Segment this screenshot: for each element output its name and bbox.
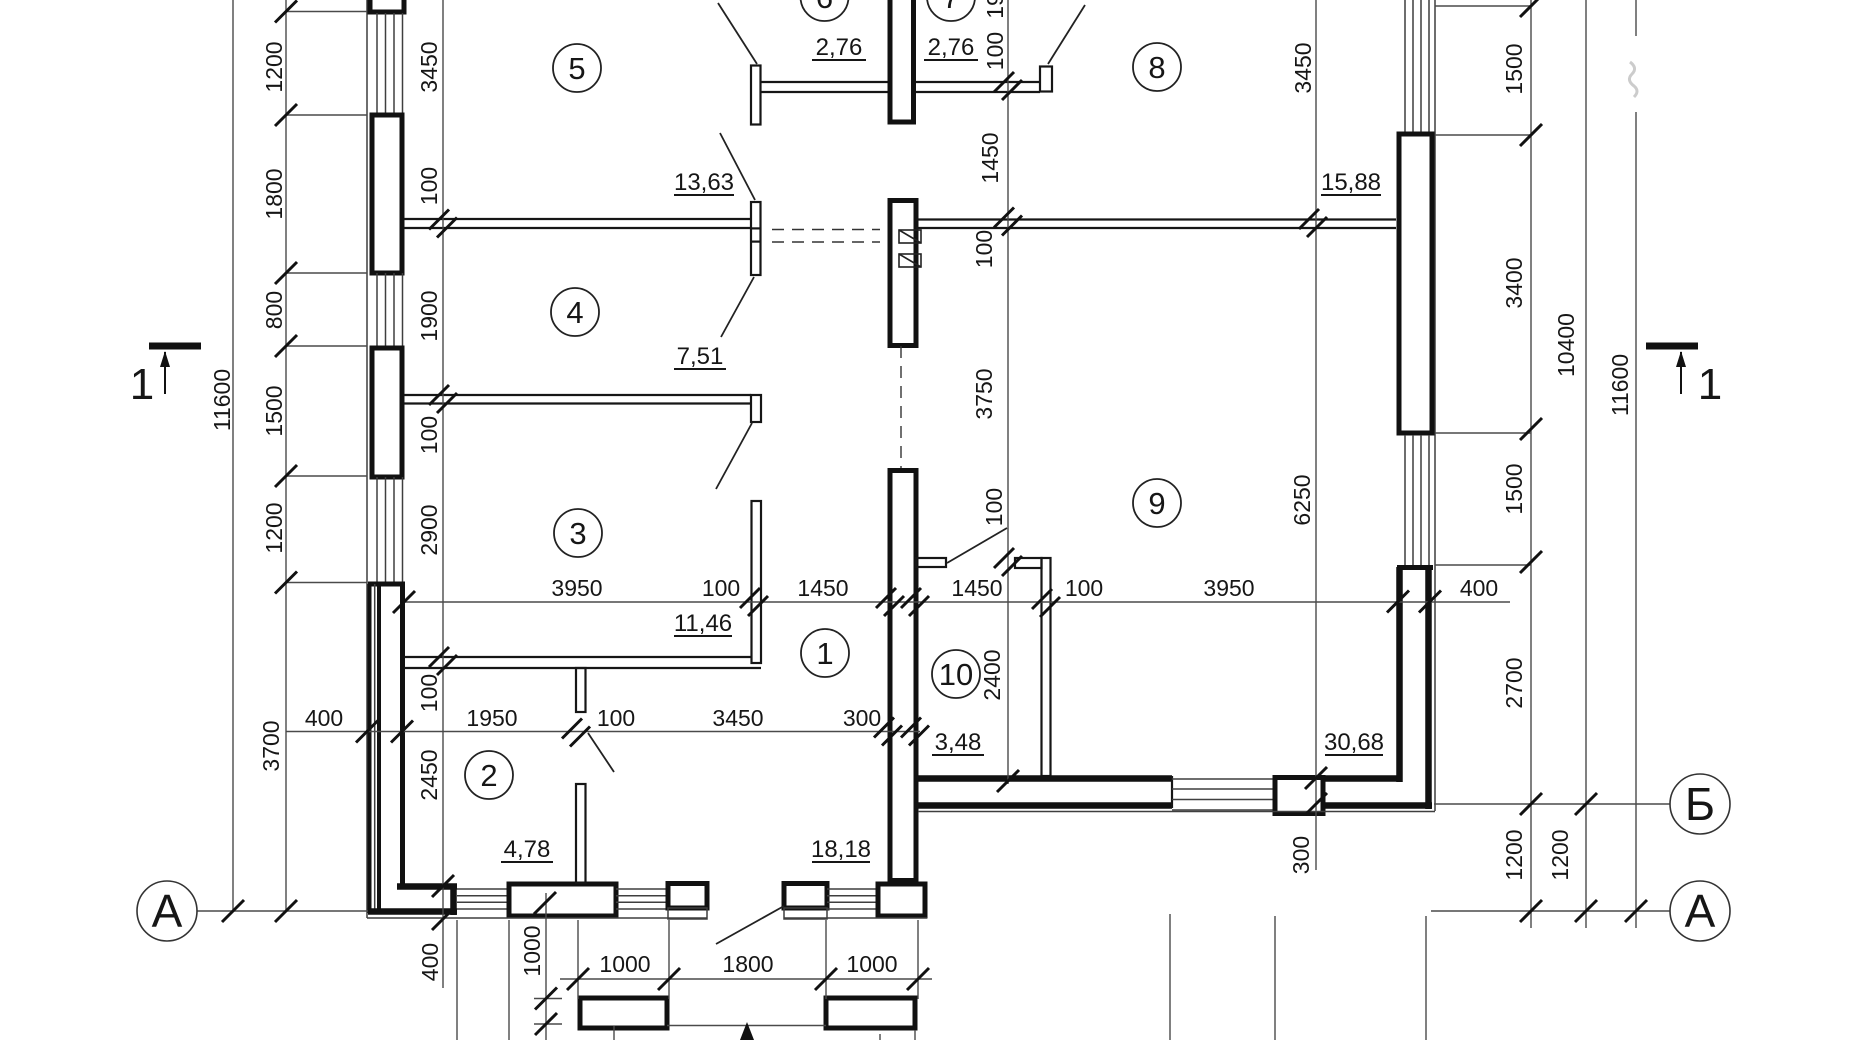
dashed lintel line a	[772, 229, 880, 231]
svg-text:2,76: 2,76	[928, 34, 975, 61]
dim text 1450 a	[797, 575, 848, 601]
svg-text:3,48: 3,48	[935, 729, 982, 756]
svg-text:13,63: 13,63	[674, 169, 734, 196]
partition rooms 8/9	[916, 220, 1396, 229]
room circle 7 (cut)	[927, 0, 975, 21]
svg-text:400: 400	[417, 943, 443, 981]
svg-text:1: 1	[816, 636, 833, 671]
entrance pier right	[784, 884, 827, 920]
bottom wall pier	[509, 884, 616, 916]
hall wall lower section	[890, 471, 916, 881]
dim ext right y565	[1435, 564, 1531, 566]
ticks porch 1000 dim	[534, 892, 557, 1035]
dim text 3750 v	[971, 368, 997, 419]
svg-text:1200: 1200	[261, 502, 287, 553]
dim ext line y115	[286, 114, 367, 116]
dim text 100 v1	[416, 167, 442, 205]
svg-text:10400: 10400	[1553, 313, 1579, 377]
window W3 left (1200)	[377, 477, 403, 582]
dim text 6250 v	[1289, 474, 1315, 525]
wall end L-cap corridor	[1040, 67, 1052, 92]
ticks left room chain	[429, 210, 457, 931]
room circle 2	[465, 751, 513, 799]
axis circle A right	[1670, 881, 1730, 941]
ticks 10400 line	[1575, 793, 1597, 922]
stub wall room 10	[916, 558, 946, 567]
dim line left chain	[285, 0, 287, 911]
partition room2/hall upper	[576, 668, 586, 712]
door leaf room 3	[716, 423, 752, 489]
dim text 100 a	[702, 575, 740, 601]
room10 bottom wall inner leaf	[914, 775, 1400, 782]
area label room 10	[932, 729, 984, 756]
window W6 bottom	[827, 889, 878, 909]
dim text 400 right	[1460, 575, 1498, 601]
svg-text:3450: 3450	[1290, 42, 1316, 93]
svg-text:1: 1	[1698, 360, 1722, 409]
dim text 100 v3	[416, 674, 442, 712]
dim text 100 v4	[982, 32, 1008, 70]
dim text 3450 c	[712, 705, 763, 731]
dashed lintel line b	[772, 241, 880, 243]
svg-text:3400: 3400	[1501, 257, 1527, 308]
dim chain horizontal y731	[286, 731, 920, 733]
dim text 3700 v	[258, 720, 284, 771]
svg-text:1500: 1500	[261, 385, 287, 436]
svg-text:1200: 1200	[261, 41, 287, 92]
dim line 10400 right	[1585, 0, 1587, 928]
svg-text:19: 19	[982, 0, 1008, 19]
ticks right chain	[1520, 0, 1542, 922]
dim line right room chain	[1315, 0, 1317, 870]
dim text 1200 v1	[261, 41, 287, 92]
axis A row line right	[1431, 910, 1670, 912]
dim text 1950 cut	[982, 0, 1008, 19]
svg-text:100: 100	[981, 488, 1007, 526]
dim text 1500 v1	[1501, 43, 1527, 94]
window W4 bottom (1000)	[457, 889, 509, 909]
svg-text:11,46: 11,46	[674, 610, 732, 637]
dim text 100 v5	[971, 230, 997, 268]
dim text 300 v	[1288, 836, 1314, 874]
room circle 4	[551, 288, 599, 336]
dim text 1900 v	[416, 290, 442, 341]
svg-text:2,76: 2,76	[816, 34, 863, 61]
svg-text:2450: 2450	[416, 749, 442, 800]
dim text 3450 v2	[1290, 42, 1316, 93]
partition rooms 10/9	[1042, 558, 1051, 776]
porch step edge line	[667, 1025, 826, 1027]
dim text 3950 right	[1203, 575, 1254, 601]
svg-text:3: 3	[569, 516, 586, 551]
svg-text:100: 100	[416, 416, 442, 454]
bottom wall outer leaf at corner	[368, 908, 457, 915]
leader room 10 door	[947, 528, 1007, 563]
area label room 3	[674, 610, 732, 637]
axis circle B right	[1670, 774, 1730, 834]
bottom pier right section	[1275, 778, 1323, 814]
dim chain bottom porch	[560, 978, 932, 980]
dim ext line y273	[286, 272, 367, 274]
room circle 10	[932, 650, 980, 698]
window W1 left (1200)	[377, 13, 403, 115]
svg-text:1950: 1950	[466, 705, 517, 731]
svg-text:8: 8	[1148, 50, 1165, 85]
dim text 1000 v	[519, 925, 545, 976]
dim ext line y580	[286, 582, 367, 584]
svg-text:4: 4	[566, 295, 583, 330]
dim text 100 c	[597, 705, 635, 731]
dim text 800 v	[261, 291, 287, 329]
svg-text:800: 800	[261, 291, 287, 329]
entrance door leaf	[716, 906, 784, 944]
room10 bottom wall outer leaf	[914, 802, 1432, 809]
dim chain horizontal y602	[404, 601, 1510, 603]
opening dashed centerline	[900, 346, 902, 468]
dim text 1500 v2	[1501, 463, 1527, 514]
dim text 2700 v	[1501, 657, 1527, 708]
bottom wall outer contour thin line	[367, 917, 927, 919]
window W9 right (1500)	[1405, 435, 1429, 565]
svg-text:3450: 3450	[712, 705, 763, 731]
svg-text:3700: 3700	[258, 720, 284, 771]
ticks chain y731	[356, 718, 929, 747]
svg-text:100: 100	[982, 32, 1008, 70]
dim ext line y346	[286, 345, 367, 347]
watermark blob	[1629, 62, 1637, 97]
svg-text:1450: 1450	[797, 575, 848, 601]
door leaf room 7	[1048, 5, 1085, 64]
dim ext right y135	[1435, 134, 1531, 136]
axis circle A left	[137, 881, 197, 941]
vent duct 1	[899, 230, 921, 243]
left wall pier P3 (1500)	[372, 348, 402, 477]
ticks right room chain	[1299, 209, 1327, 815]
dim line 11600 right	[1635, 0, 1637, 928]
room circle 3	[554, 509, 602, 557]
svg-text:100: 100	[597, 705, 635, 731]
area label room 1	[811, 836, 871, 863]
dim line left room chain	[442, 0, 444, 988]
left exterior wall outer face line	[366, 0, 368, 918]
dim text 100 v2	[416, 416, 442, 454]
partition rooms 5/4	[404, 219, 751, 228]
dim line 11600 left	[232, 0, 234, 911]
right wall sill cap	[1397, 565, 1433, 570]
dim line porch 1000	[534, 893, 562, 1040]
bottom wall window cap	[450, 884, 457, 916]
window W5 bottom	[616, 889, 668, 909]
svg-text:1500: 1500	[1501, 463, 1527, 514]
svg-text:9: 9	[1148, 486, 1165, 521]
svg-text:1500: 1500	[1501, 43, 1527, 94]
right wall inner leaf	[1396, 567, 1403, 782]
area label room 8	[1321, 169, 1381, 196]
entrance pier left	[668, 884, 707, 920]
dim text 1200 v3	[1501, 829, 1527, 880]
svg-text:3450: 3450	[416, 41, 442, 92]
svg-text:1: 1	[130, 360, 154, 409]
svg-text:300: 300	[1288, 836, 1314, 874]
room circle 6 (cut)	[801, 0, 849, 21]
window W7 bottom-right	[1172, 779, 1275, 810]
dim ext porch lines	[578, 920, 918, 999]
ticks porch chain	[567, 968, 929, 990]
right wall pier (3400)	[1399, 134, 1432, 433]
dim ext line x1275	[1274, 916, 1276, 1040]
dim text 2900 v	[416, 504, 442, 555]
window W8 right (1500)	[1405, 0, 1429, 132]
svg-text:2900: 2900	[416, 504, 442, 555]
dim text 400 v	[417, 943, 443, 981]
axis A row line left	[197, 910, 368, 912]
dim text 100 v6	[981, 488, 1007, 526]
svg-text:1800: 1800	[261, 168, 287, 219]
wall end cap at 4/3 partition	[751, 395, 761, 422]
svg-text:10: 10	[939, 657, 973, 692]
dim text 1450 b	[951, 575, 1002, 601]
svg-text:100: 100	[416, 674, 442, 712]
partition room2/hall lower	[576, 784, 586, 883]
svg-text:1200: 1200	[1547, 829, 1573, 880]
left wall pier P1 (top, cut)	[370, 0, 404, 12]
left wall pier P2 (1800)	[372, 115, 402, 273]
svg-text:7,51: 7,51	[677, 343, 724, 370]
door leaf room 5	[720, 133, 755, 200]
dim ext line x457	[456, 920, 458, 1040]
right exterior wall outer contour	[918, 0, 1435, 812]
dim line right chain	[1530, 0, 1532, 928]
svg-text:1000: 1000	[519, 925, 545, 976]
dim text 1000 r	[846, 951, 897, 977]
window W2 left (800)	[377, 273, 403, 346]
area label room 5/4 corridor	[674, 169, 734, 196]
room circle 9	[1133, 479, 1181, 527]
dim text 2400 v	[979, 649, 1005, 700]
dim text 3950 left	[551, 575, 602, 601]
svg-text:1200: 1200	[1501, 829, 1527, 880]
door jamb room 10/9	[1015, 558, 1042, 568]
svg-text:1000: 1000	[846, 951, 897, 977]
svg-text:100: 100	[416, 167, 442, 205]
svg-text:1450: 1450	[977, 132, 1003, 183]
svg-text:1000: 1000	[599, 951, 650, 977]
svg-text:3950: 3950	[1203, 575, 1254, 601]
ticks center vertical chain	[994, 72, 1022, 792]
room circle 5	[553, 44, 601, 92]
dim text 1800	[722, 951, 773, 977]
dim text 10400	[1553, 313, 1579, 377]
door leaf room 4	[721, 277, 754, 337]
ticks chain y602	[393, 588, 1441, 617]
svg-text:400: 400	[1460, 575, 1498, 601]
left lower wall transition cap	[368, 582, 405, 587]
left lower wall outer leaf	[370, 584, 380, 913]
bottom wall inner leaf at corner	[397, 883, 457, 890]
partition rooms 4/3	[404, 395, 751, 404]
dim text 1800 v	[261, 168, 287, 219]
area label room 7	[924, 34, 978, 61]
dim text 3450 v1	[416, 41, 442, 92]
room circle 1	[801, 629, 849, 677]
svg-text:А: А	[152, 885, 183, 937]
dim text 3400 v	[1501, 257, 1527, 308]
svg-text:5: 5	[568, 51, 585, 86]
dim ext line x1170	[1169, 914, 1171, 1040]
svg-text:11600: 11600	[1607, 354, 1633, 416]
svg-text:4,78: 4,78	[504, 836, 551, 863]
section mark 1 left	[130, 343, 201, 410]
dim text 11600 left	[209, 369, 235, 431]
dim ext line y15	[286, 11, 367, 13]
svg-text:100: 100	[971, 230, 997, 268]
svg-text:2700: 2700	[1501, 657, 1527, 708]
room circle 8	[1133, 43, 1181, 91]
svg-text:15,88: 15,88	[1321, 169, 1381, 196]
svg-text:18,18: 18,18	[811, 836, 871, 863]
svg-text:100: 100	[702, 575, 740, 601]
vent duct 2	[899, 254, 921, 267]
dim text 1200 v4	[1547, 829, 1573, 880]
porch stub line x614	[613, 1026, 615, 1040]
dim ext line x509	[508, 920, 510, 1040]
svg-text:А: А	[1685, 885, 1716, 937]
svg-text:1800: 1800	[722, 951, 773, 977]
right wall outer leaf	[1425, 567, 1432, 809]
svg-text:6: 6	[816, 0, 833, 15]
area label room 9	[1324, 729, 1384, 756]
left lower wall inner leaf	[400, 584, 405, 889]
dim ext line y476	[286, 475, 367, 477]
room10 bottom wall end cap	[1171, 776, 1173, 808]
dim text 1000 l	[599, 951, 650, 977]
porch stub line x880	[879, 1034, 881, 1040]
dim text 100 b	[1065, 575, 1103, 601]
porch step left	[580, 998, 667, 1028]
svg-text:100: 100	[1065, 575, 1103, 601]
dim ext line x1426	[1425, 916, 1427, 1040]
entrance mark triangle	[740, 1022, 754, 1040]
porch step right	[826, 998, 915, 1028]
partition rooms 3/2	[404, 657, 761, 668]
svg-text:2400: 2400	[979, 649, 1005, 700]
svg-text:11600: 11600	[209, 369, 235, 431]
dim text 400 c	[305, 705, 343, 731]
dim line center vertical chain	[1007, 0, 1009, 784]
wall end cap at 5/4 partition	[751, 202, 761, 275]
svg-text:Б: Б	[1685, 778, 1715, 830]
door leaf room 6	[718, 3, 757, 64]
hall wall rooms 6/7 section	[890, 0, 914, 122]
svg-text:1450: 1450	[951, 575, 1002, 601]
area label room 6	[812, 34, 866, 61]
axis B row line right	[1434, 803, 1670, 805]
hall wall upper section	[890, 201, 916, 346]
ticks left chain	[222, 1, 297, 923]
svg-text:400: 400	[305, 705, 343, 731]
svg-text:7: 7	[942, 0, 959, 15]
partition room3/hall	[752, 501, 762, 663]
door leaf room 2	[588, 733, 614, 772]
wall end T-cap corridor	[751, 66, 761, 125]
dim text 11600 right	[1607, 354, 1633, 416]
svg-text:1900: 1900	[416, 290, 442, 341]
corridor wall room 6 side	[761, 82, 888, 92]
dim text 1950	[466, 705, 517, 731]
dim ext right y6	[1435, 5, 1531, 7]
tick 11600 right	[1625, 900, 1647, 922]
svg-text:3950: 3950	[551, 575, 602, 601]
dim text 2450 v	[416, 749, 442, 800]
porch stub line x915	[914, 1030, 916, 1040]
svg-text:30,68: 30,68	[1324, 729, 1384, 756]
svg-text:300: 300	[843, 705, 881, 731]
svg-text:2: 2	[480, 758, 497, 793]
dim ext right y433	[1435, 432, 1531, 434]
dim text 300 c	[843, 705, 881, 731]
corridor wall room 7 side	[915, 82, 1040, 92]
area label room 2	[501, 836, 553, 863]
bottom corner block	[878, 884, 925, 916]
dim text 1200 v2	[261, 502, 287, 553]
area label room 4	[674, 343, 726, 370]
svg-text:3750: 3750	[971, 368, 997, 419]
section mark 1 right	[1646, 343, 1722, 410]
dim text 1500 v	[261, 385, 287, 436]
svg-text:6250: 6250	[1289, 474, 1315, 525]
dim text 1450 v	[977, 132, 1003, 183]
